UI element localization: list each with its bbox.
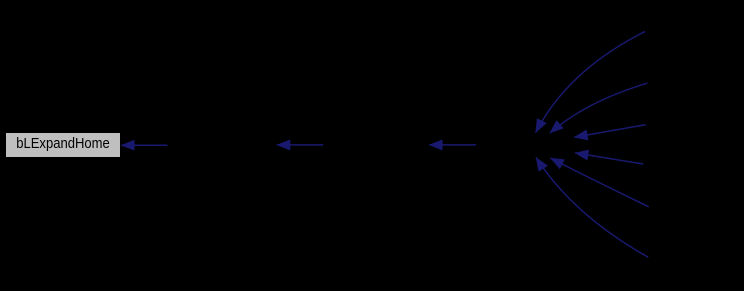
edge arrow B (node3 to node2) — [277, 144, 323, 146]
edge curve 1 (top source to node4 top) — [536, 31, 646, 132]
edge arrow A (node2 to bLExpandHome) — [121, 144, 167, 146]
edge curve 2 (second source to node4 top) — [550, 83, 647, 133]
edge curve 3 (third source to node4 right edge) — [574, 125, 645, 138]
edge curve 4 (fourth source to node4 right edge) — [575, 153, 643, 164]
node bLExpandHome — [6, 133, 120, 157]
edge arrow C (node4 to node3) — [429, 144, 476, 146]
edge curve 6 (bottom source to node4 bottom) — [536, 157, 648, 257]
edge curve 5 (fifth source to node4 bottom) — [550, 158, 648, 207]
